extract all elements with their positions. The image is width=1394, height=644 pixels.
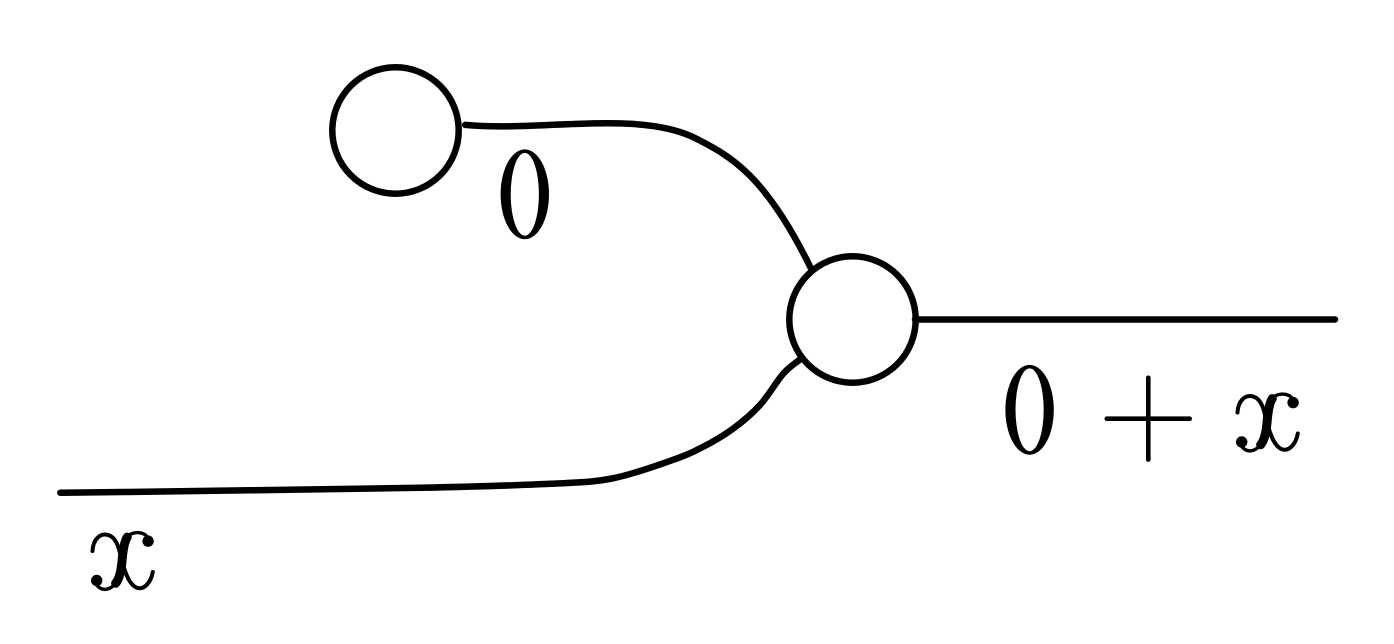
zero-morphism circle (small top-left node) [332,67,458,193]
output wire 0+x (right horizontal line) [915,316,1335,323]
label 0 + x : plus sign [1107,378,1190,460]
wire from input x to addition node (bottom curve) [60,360,799,493]
label 0 (top, under zero node wire) [501,149,549,239]
wire from zero node to addition node (top curve) [465,123,810,267]
label x (in 0 + x) [1236,394,1299,451]
label x (bottom-left input wire label) [91,533,154,590]
addition node circle (large center node) [789,256,915,382]
label 0 + x (under output wire): digit 0 [1005,365,1053,455]
